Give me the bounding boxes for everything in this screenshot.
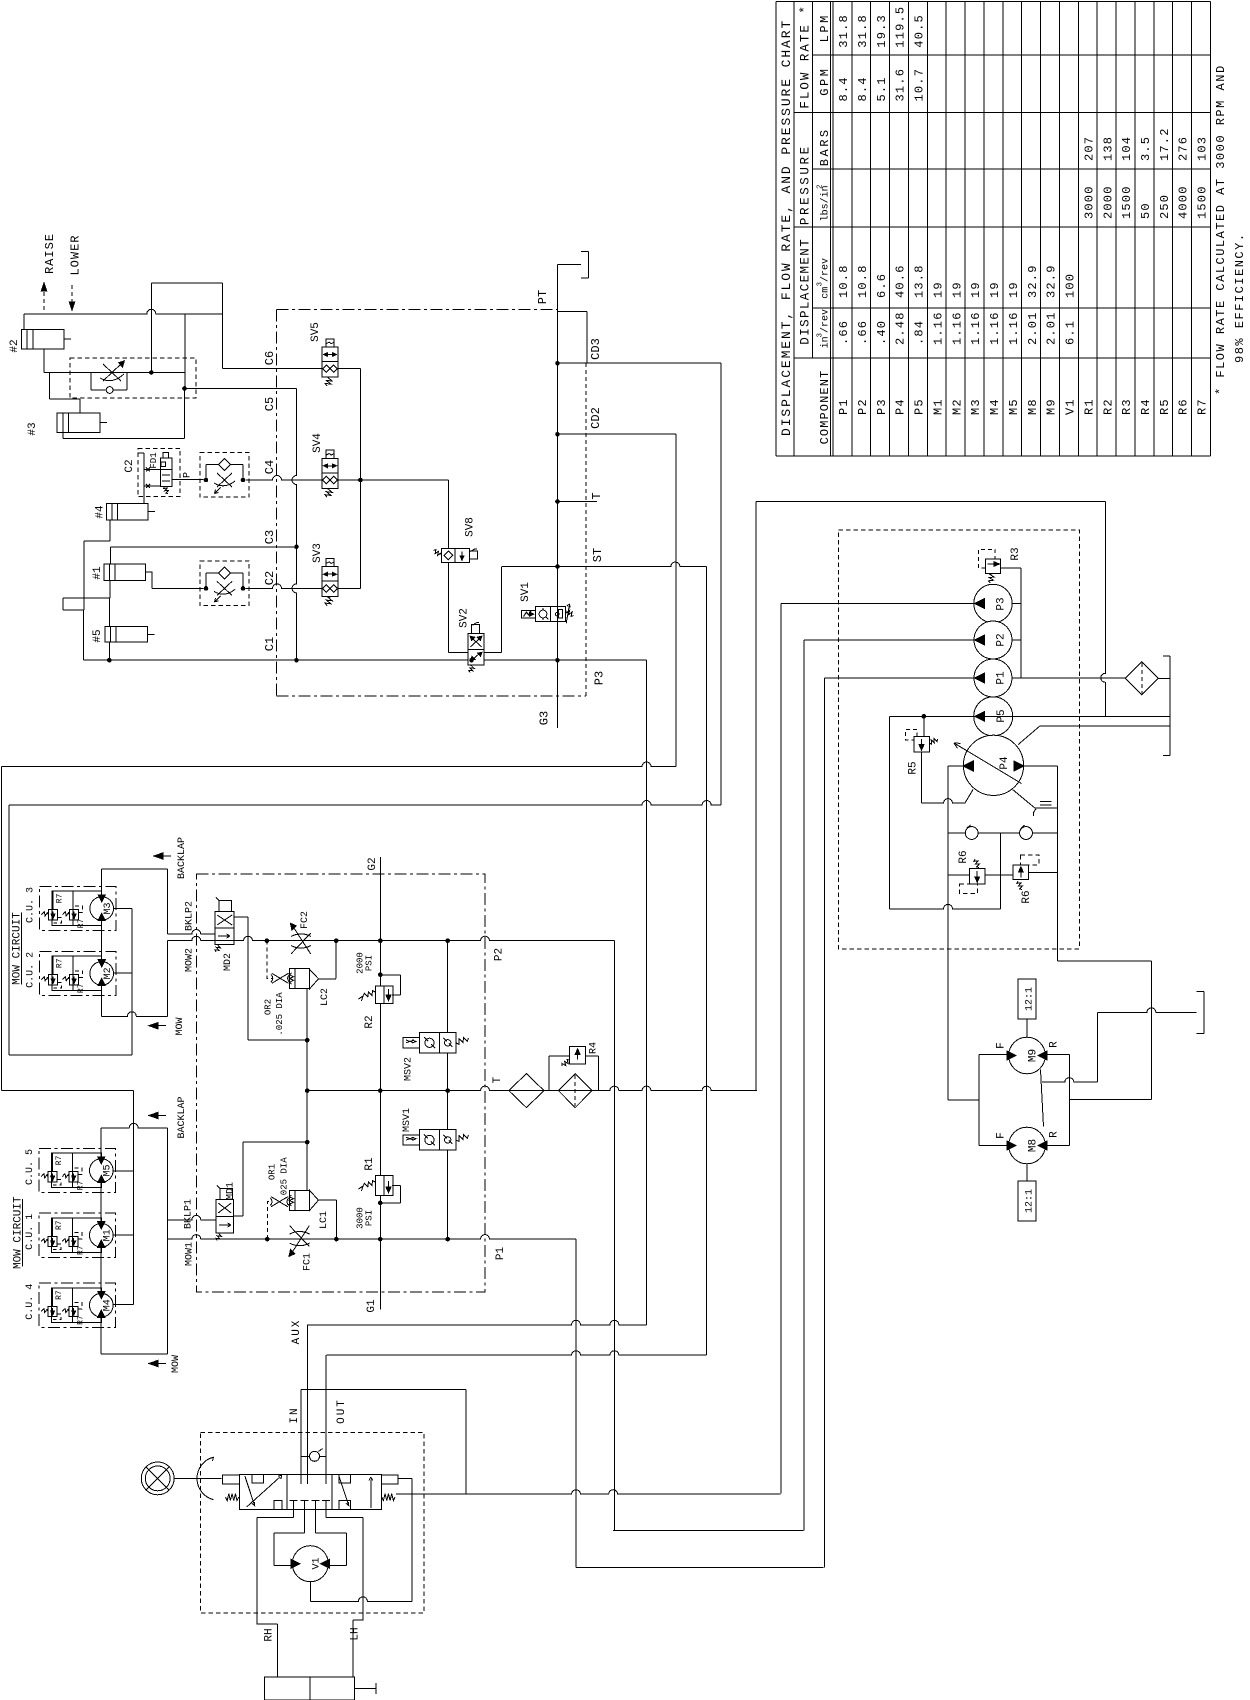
svg-text:12:1: 12:1 <box>1024 987 1035 1011</box>
svg-text:BKLP1: BKLP1 <box>184 1199 195 1229</box>
cutting unit C.U. 2 <box>40 951 116 995</box>
valve SV5 <box>322 347 338 377</box>
wire P1 supply <box>575 1239 577 1567</box>
svg-text:PSI: PSI <box>365 1210 375 1226</box>
svg-text:FD1: FD1 <box>149 452 159 468</box>
svg-text:R7: R7 <box>76 1315 85 1325</box>
arrow BACKLAP lower <box>156 1115 166 1117</box>
valve MSV2 <box>403 1038 419 1048</box>
wire <box>1026 1019 1028 1037</box>
wire <box>306 989 308 1191</box>
svg-text:3000: 3000 <box>1082 185 1096 219</box>
svg-text:M4: M4 <box>103 1299 114 1311</box>
wire <box>150 283 152 372</box>
wire LH <box>325 1510 327 1518</box>
svg-text:8.4: 8.4 <box>856 76 870 101</box>
svg-text:#1: #1 <box>92 566 104 580</box>
wire C2 <box>152 587 204 589</box>
svg-text:R5: R5 <box>1158 398 1172 415</box>
svg-text:/rev: /rev <box>820 258 832 282</box>
wire <box>292 389 296 661</box>
svg-text:19: 19 <box>931 281 945 298</box>
wire <box>138 452 144 454</box>
cutting unit C.U. 1 <box>39 1213 115 1257</box>
svg-text:R: R <box>1048 1131 1060 1138</box>
label R6 b <box>1029 871 1058 873</box>
svg-text:10.7: 10.7 <box>913 68 927 102</box>
svg-text:CD3: CD3 <box>589 338 603 360</box>
wire RH <box>292 1510 294 1518</box>
svg-text:98% EFFICIENCY.: 98% EFFICIENCY. <box>1233 232 1247 363</box>
cutting unit C.U. 3 <box>40 886 116 930</box>
wire <box>49 373 51 400</box>
svg-text:M8: M8 <box>1027 1139 1039 1152</box>
svg-text:M1: M1 <box>103 1229 114 1241</box>
svg-text:32.9: 32.9 <box>1026 264 1040 298</box>
wire <box>1097 1012 1099 1082</box>
wire <box>720 363 722 805</box>
wire <box>447 941 449 1033</box>
wire <box>101 1123 168 1128</box>
wire C6 <box>223 368 322 370</box>
svg-text:F: F <box>995 1042 1007 1049</box>
arrow BACKLAP upper <box>161 855 171 857</box>
lift block dash-dot box <box>277 309 558 311</box>
svg-text:MOW1: MOW1 <box>184 1242 195 1266</box>
wire ST <box>502 562 707 567</box>
svg-text:19: 19 <box>988 281 1002 298</box>
svg-text:LC1: LC1 <box>319 1211 330 1229</box>
svg-text:2: 2 <box>817 184 825 189</box>
svg-text:IN: IN <box>289 1406 301 1423</box>
svg-text:M5: M5 <box>1007 398 1021 415</box>
wire G1 <box>379 1004 381 1176</box>
wire P5 out <box>890 715 1170 717</box>
wire <box>576 1566 823 1568</box>
wire BKLP2 <box>167 930 215 935</box>
svg-text:P2: P2 <box>493 948 505 961</box>
svg-text:lbs/in: lbs/in <box>820 185 832 221</box>
svg-text:MOW2: MOW2 <box>185 948 196 972</box>
wire <box>1069 1099 1151 1101</box>
svg-text:19.3: 19.3 <box>875 14 889 48</box>
wire <box>921 752 923 803</box>
svg-text:P1: P1 <box>837 398 851 415</box>
svg-text:10.8: 10.8 <box>837 264 851 298</box>
check valve bypass <box>90 373 92 391</box>
svg-text:.84: .84 <box>913 320 927 345</box>
check valve steering <box>301 1455 326 1457</box>
svg-text:19: 19 <box>950 281 964 298</box>
wire P4 suction diag <box>1018 726 1040 745</box>
svg-text:R4: R4 <box>1139 398 1153 415</box>
wire pump discharge <box>1012 677 1125 679</box>
svg-text:R7: R7 <box>76 1245 85 1255</box>
svg-text:R7: R7 <box>55 893 64 903</box>
svg-text:R4: R4 <box>589 1042 600 1054</box>
svg-text:SV4: SV4 <box>312 433 324 453</box>
wire <box>300 1390 302 1475</box>
motor M9 <box>1009 1037 1046 1074</box>
svg-text:SV8: SV8 <box>464 517 476 537</box>
wire <box>23 314 25 330</box>
svg-text:PT: PT <box>536 290 550 304</box>
wire <box>309 1582 311 1602</box>
svg-text:AUX: AUX <box>291 1319 303 1345</box>
wire <box>889 716 891 909</box>
wire <box>151 572 153 588</box>
svg-text:1.16: 1.16 <box>950 311 964 345</box>
arrow MOW lower <box>156 1363 166 1365</box>
svg-text:M3: M3 <box>103 902 114 914</box>
svg-text:C3: C3 <box>263 530 277 544</box>
wire MOW2 main <box>167 936 614 941</box>
wire MD2 out <box>234 916 248 918</box>
svg-text:R5: R5 <box>907 761 919 774</box>
svg-text:CD2: CD2 <box>589 407 603 429</box>
wire C4 from FD1 <box>172 479 204 481</box>
cutting unit C.U. 5 <box>39 1148 115 1192</box>
wire AUX <box>307 1320 647 1325</box>
wire pump suction P3 <box>780 604 782 1494</box>
svg-text:SV3: SV3 <box>312 543 324 563</box>
wire <box>1057 766 1059 961</box>
svg-text:FC1: FC1 <box>303 1253 314 1271</box>
wire case drain P4 <box>1013 790 1035 809</box>
wire suction <box>947 766 949 1100</box>
svg-text:P4: P4 <box>894 398 908 415</box>
wire <box>781 603 974 605</box>
svg-text:31.8: 31.8 <box>856 14 870 48</box>
mow circuit upper title <box>21 913 23 985</box>
svg-text:M4: M4 <box>988 398 1002 415</box>
svg-text:.40: .40 <box>875 320 889 345</box>
wire node C3 <box>110 546 296 548</box>
svg-text:C1: C1 <box>263 637 277 651</box>
svg-text:BACKLAP: BACKLAP <box>177 1096 188 1138</box>
svg-text:RH: RH <box>263 1628 275 1641</box>
svg-text:M5: M5 <box>103 1164 114 1176</box>
svg-text:R7: R7 <box>55 1290 64 1300</box>
wire case drain M9 <box>1041 1070 1044 1127</box>
cylinder #5 <box>105 626 147 642</box>
relief R6 left <box>969 869 985 885</box>
svg-text:R7: R7 <box>1196 398 1210 415</box>
mow circuit lower title <box>22 1199 24 1267</box>
wire <box>338 587 360 589</box>
svg-text:GPM: GPM <box>818 67 832 96</box>
wire C2 <box>246 584 323 588</box>
wire <box>1101 502 1106 717</box>
svg-text:SV2: SV2 <box>458 608 470 628</box>
steering valve <box>240 1474 382 1509</box>
svg-text:104: 104 <box>1120 136 1134 161</box>
svg-text:103: 103 <box>1196 136 1210 161</box>
svg-text:.66: .66 <box>856 320 870 345</box>
pump P3 <box>974 584 1012 622</box>
relief R6 right <box>1013 865 1028 880</box>
svg-text:#4: #4 <box>94 505 106 519</box>
wire R bus <box>1045 1053 1069 1055</box>
svg-text:P5: P5 <box>996 709 1008 722</box>
wire <box>43 349 45 373</box>
wire pump suction P1 <box>824 678 826 1567</box>
svg-text:MOW: MOW <box>175 1017 186 1035</box>
arrow MOW upper <box>156 1025 166 1027</box>
svg-text:100: 100 <box>1064 273 1078 298</box>
relief R2 <box>363 991 375 997</box>
svg-text:LPM: LPM <box>818 13 832 42</box>
wire MOW1 main <box>167 1235 576 1240</box>
orifice OR2 <box>267 941 272 979</box>
tank reservoir right <box>1169 656 1171 756</box>
wire OUT return <box>327 1351 707 1356</box>
wire <box>948 765 963 767</box>
svg-text:BKLP2: BKLP2 <box>185 901 196 931</box>
valve SV3 <box>322 567 338 597</box>
svg-text:.025 DIA: .025 DIA <box>280 1157 290 1201</box>
wire <box>675 434 677 766</box>
svg-text:MOW CIRCUIT: MOW CIRCUIT <box>11 912 23 985</box>
valve MSV1 <box>403 1135 419 1145</box>
svg-text:cm: cm <box>821 287 832 299</box>
svg-text:M1: M1 <box>931 398 945 415</box>
svg-text:T: T <box>492 1076 504 1083</box>
wire <box>222 283 224 369</box>
wire <box>923 716 925 736</box>
steering dashed box <box>200 1433 424 1613</box>
svg-text:M8: M8 <box>1026 398 1040 415</box>
valve SV4 <box>322 458 338 488</box>
wire C4 to SV8 <box>338 479 448 481</box>
valve MD2 <box>215 912 234 945</box>
svg-text:50: 50 <box>1139 202 1153 219</box>
svg-text:119.5: 119.5 <box>894 6 908 48</box>
svg-text:C.U. 4: C.U. 4 <box>25 1284 36 1320</box>
svg-text:P5: P5 <box>913 398 927 415</box>
svg-text:M3: M3 <box>969 398 983 415</box>
orifice OR1 <box>267 1202 272 1239</box>
svg-text:19: 19 <box>969 281 983 298</box>
wire <box>9 1054 132 1056</box>
wire T rail <box>307 1086 757 1091</box>
wire <box>755 502 757 1091</box>
svg-text:R3: R3 <box>1010 547 1022 560</box>
svg-text:2.48: 2.48 <box>894 311 908 345</box>
filter F1 <box>1125 662 1158 695</box>
svg-text:R2: R2 <box>364 1015 376 1028</box>
svg-text:250: 250 <box>1158 194 1172 219</box>
svg-text:DISPLACEMENT: DISPLACEMENT <box>799 238 813 345</box>
svg-text:207: 207 <box>1082 136 1096 161</box>
svg-text:MSV2: MSV2 <box>403 1057 414 1081</box>
motor V1 loop <box>304 1510 306 1533</box>
svg-text:P2: P2 <box>856 398 870 415</box>
flow control FC <box>103 364 122 382</box>
wire motor bus lower <box>100 1128 102 1159</box>
svg-text:M2: M2 <box>103 967 114 979</box>
wire <box>144 468 160 470</box>
svg-text:MOW CIRCUIT: MOW CIRCUIT <box>12 1196 24 1269</box>
svg-text:13.8: 13.8 <box>913 264 927 298</box>
svg-text:COMPONENT: COMPONENT <box>818 370 832 445</box>
svg-text:C4: C4 <box>263 460 277 474</box>
svg-text:31.6: 31.6 <box>894 68 908 102</box>
wire T return <box>756 501 1105 503</box>
svg-text:OR1: OR1 <box>268 1164 278 1180</box>
pump P2 <box>974 621 1012 659</box>
svg-text:2.01: 2.01 <box>1026 311 1040 345</box>
svg-text:#5: #5 <box>92 629 104 642</box>
svg-text:1500: 1500 <box>1196 185 1210 219</box>
svg-text:G1: G1 <box>366 1299 378 1313</box>
wire <box>8 805 10 1055</box>
svg-text:PSI: PSI <box>365 955 375 971</box>
wire <box>144 485 160 487</box>
svg-text:40.6: 40.6 <box>894 264 908 298</box>
pump P5 <box>974 697 1013 736</box>
svg-text:P1: P1 <box>995 671 1007 685</box>
svg-text:6.6: 6.6 <box>875 273 889 298</box>
svg-text:12:1: 12:1 <box>1024 1189 1035 1213</box>
relief R1 <box>363 1181 375 1187</box>
svg-text:R7: R7 <box>76 1180 85 1190</box>
svg-text:V1: V1 <box>1064 398 1078 415</box>
svg-text:R6: R6 <box>1177 398 1191 415</box>
wire slow-return line <box>44 372 185 374</box>
gearbox 12:1 top <box>1018 979 1036 1019</box>
cylinder #3 <box>57 413 100 433</box>
cylinder #1 <box>104 564 146 580</box>
check-restrictor C4 <box>200 453 249 498</box>
svg-text:FC2: FC2 <box>300 911 311 929</box>
wire <box>825 677 975 679</box>
wire motor bus upper <box>101 869 103 897</box>
gearbox 12:1 bottom <box>1018 1181 1036 1221</box>
svg-text:1500: 1500 <box>1120 185 1134 219</box>
svg-text:R2: R2 <box>1101 398 1115 415</box>
wire P2 supply <box>613 941 615 1531</box>
svg-text:R7: R7 <box>55 1220 64 1230</box>
svg-text:10.8: 10.8 <box>856 264 870 298</box>
svg-text:C2: C2 <box>263 571 277 585</box>
svg-text:1.16: 1.16 <box>988 311 1002 345</box>
wire <box>398 1477 412 1479</box>
wire G2 <box>379 857 381 986</box>
valve FD1 <box>138 448 180 496</box>
wire <box>447 1150 449 1239</box>
motor M8 <box>1009 1127 1046 1164</box>
svg-text:MD1: MD1 <box>225 1182 236 1200</box>
wire <box>133 1091 135 1305</box>
svg-text:M2: M2 <box>950 398 964 415</box>
logic valve LC1 <box>290 1190 310 1210</box>
svg-text:F: F <box>995 1132 1007 1139</box>
wire pump suction P2 <box>803 640 805 1531</box>
svg-text:MSV1: MSV1 <box>402 1108 413 1132</box>
check-restrictor C2 <box>200 561 249 606</box>
wire <box>102 1012 168 1017</box>
svg-text:* FLOW RATE CALCULATED AT 3000: * FLOW RATE CALCULATED AT 3000 RPM AND <box>1214 64 1228 395</box>
wire <box>102 868 168 870</box>
wire <box>113 908 132 910</box>
relief R3 <box>985 559 1000 574</box>
relief R5 <box>914 737 930 753</box>
wire <box>1150 961 1152 1100</box>
label R6 <box>948 874 969 876</box>
flow control FC1 <box>290 1231 310 1234</box>
svg-text:FLOW RATE *: FLOW RATE * <box>799 4 813 109</box>
check valves pump <box>948 832 1058 834</box>
tank reservoir M9 <box>1203 991 1205 1033</box>
svg-text:LH: LH <box>350 1627 362 1640</box>
svg-text:DISPLACEMENT, FLOW RATE, AND P: DISPLACEMENT, FLOW RATE, AND PRESSURE CH… <box>779 19 794 436</box>
svg-text:RAISE: RAISE <box>43 233 57 274</box>
valve SV2 <box>468 634 484 665</box>
tank PT <box>558 263 582 265</box>
svg-text:2000: 2000 <box>1101 185 1115 219</box>
wire <box>108 642 110 660</box>
label SV2 <box>469 658 474 663</box>
wire <box>151 282 222 284</box>
wire <box>62 432 64 438</box>
svg-text:1.16: 1.16 <box>1007 311 1021 345</box>
wire <box>706 567 708 1356</box>
svg-text:C.U. 2: C.U. 2 <box>26 952 37 988</box>
svg-text:#2: #2 <box>9 339 21 352</box>
svg-text:M9: M9 <box>1027 1049 1039 1062</box>
svg-text:276: 276 <box>1177 136 1191 161</box>
wire CD2 <box>558 433 677 435</box>
svg-text:BARS: BARS <box>818 127 832 166</box>
wire MD1 out <box>233 1215 243 1217</box>
svg-text:R7: R7 <box>55 958 64 968</box>
svg-text:R7: R7 <box>77 918 86 928</box>
svg-text:19: 19 <box>1007 281 1021 298</box>
flow control FC2 <box>291 934 311 937</box>
steering wheel <box>141 1462 174 1495</box>
svg-text:/rev: /rev <box>820 309 832 333</box>
wire <box>24 309 223 314</box>
svg-text:R1: R1 <box>1082 398 1096 415</box>
svg-text:PRESSURE: PRESSURE <box>799 144 813 225</box>
svg-text:C.U. 3: C.U. 3 <box>26 887 37 923</box>
wire <box>108 598 110 626</box>
svg-text:8.4: 8.4 <box>837 76 851 101</box>
svg-text:C5: C5 <box>263 397 277 411</box>
svg-text:31.8: 31.8 <box>837 14 851 48</box>
wire <box>109 580 111 598</box>
svg-text:4000: 4000 <box>1177 185 1191 219</box>
svg-text:P3: P3 <box>995 597 1007 610</box>
svg-text:P3: P3 <box>875 398 889 415</box>
pump box dashed <box>839 530 1080 949</box>
wire CD3 <box>558 362 722 364</box>
svg-text:ST: ST <box>591 548 605 562</box>
svg-text:V1: V1 <box>312 1557 323 1569</box>
wire C1-P3 <box>84 659 469 661</box>
svg-text:C6: C6 <box>263 351 277 365</box>
wire IN <box>306 1325 308 1475</box>
svg-text:17.2: 17.2 <box>1158 127 1172 161</box>
slow-return dashed box <box>70 358 196 398</box>
svg-text:P2: P2 <box>995 633 1007 646</box>
wire <box>613 1530 803 1532</box>
svg-text:SV1: SV1 <box>520 582 532 602</box>
svg-text:LC2: LC2 <box>320 988 331 1006</box>
filter T2 <box>558 1074 592 1108</box>
wire <box>1000 567 1021 569</box>
